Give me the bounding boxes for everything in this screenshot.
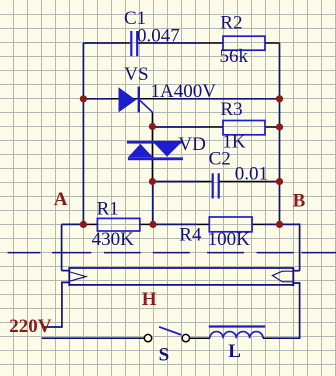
junction at A — [80, 221, 87, 228]
svg-text:R4: R4 — [179, 224, 202, 245]
junction right rail VS row — [276, 95, 283, 102]
svg-text:C2: C2 — [209, 149, 231, 170]
switch S contact right — [182, 334, 189, 341]
svg-text:0.047: 0.047 — [137, 26, 180, 47]
svg-text:56k: 56k — [220, 46, 249, 67]
pin switch to L — [190, 337, 210, 339]
junction at B — [276, 221, 283, 228]
wire stub left top — [62, 270, 70, 272]
wire top row C1/R2 — [83, 42, 121, 44]
wire tube right bottom stub — [272, 283, 300, 338]
svg-text:B: B — [293, 191, 306, 212]
svg-text:VS: VS — [124, 64, 148, 85]
svg-text:R1: R1 — [97, 199, 119, 220]
junction right rail C2 row — [276, 178, 283, 185]
pin R2 left — [201, 42, 223, 44]
svg-text:R3: R3 — [220, 99, 242, 120]
pin switch left — [138, 337, 144, 339]
svg-text:R2: R2 — [220, 13, 242, 34]
svg-text:VD: VD — [178, 134, 205, 155]
junction diac bottom — [149, 178, 156, 185]
resistor R3 — [223, 121, 265, 135]
svg-text:430K: 430K — [92, 229, 135, 250]
heater H tube — [69, 267, 295, 286]
pin diac vertical — [151, 112, 153, 181]
wire left vertical rail — [82, 43, 84, 224]
wire VS row left — [83, 98, 110, 100]
wire A to left drop — [61, 224, 63, 270]
wire C1 right to R2 — [151, 42, 201, 44]
wire B to right drop — [280, 224, 300, 270]
pin R1 right — [140, 223, 153, 225]
pin C2 left — [201, 181, 212, 183]
VS gate diagonal — [140, 101, 152, 113]
svg-text:S: S — [159, 345, 170, 366]
junction dots — [80, 95, 283, 228]
svg-text:100K: 100K — [208, 229, 251, 250]
dashed enclosure line — [8, 252, 336, 254]
svg-text:L: L — [228, 341, 241, 362]
pin C1 right — [137, 42, 151, 44]
resistor R1 — [97, 218, 139, 231]
wire tube left bottom stub — [45, 282, 70, 327]
pin VS cathode — [140, 98, 172, 100]
pin C1 left — [121, 42, 130, 44]
heater right electrode — [272, 271, 293, 282]
wire C2 right — [269, 181, 280, 183]
svg-text:H: H — [142, 289, 157, 310]
wire R1 to R4 — [153, 223, 197, 225]
junction right rail R3 row — [276, 123, 283, 130]
heater left electrode — [70, 272, 86, 281]
pin R2 right — [265, 42, 280, 44]
junction R1 right — [149, 221, 156, 228]
inductor L — [209, 327, 265, 339]
junction diac top — [149, 123, 156, 130]
resistor R2 — [223, 36, 265, 50]
wire stub right top — [293, 270, 299, 272]
switch S contact left — [144, 334, 151, 341]
wire R3 row left — [152, 126, 205, 128]
switch blade — [159, 327, 181, 335]
diac VD — [127, 141, 183, 160]
thyristor VS — [119, 87, 141, 113]
resistor R4 — [209, 217, 252, 232]
wire A row — [62, 223, 86, 225]
wire C2 row left — [152, 181, 200, 183]
wire VS row right — [172, 98, 280, 100]
pin R4 left — [197, 223, 210, 225]
wire R4 to B — [265, 223, 280, 225]
wire diac to A-B row — [152, 182, 154, 225]
wire 220V bottom lead — [42, 337, 138, 339]
svg-text:0.01: 0.01 — [235, 163, 268, 184]
pin R3 right — [265, 126, 280, 128]
wire right vertical rail — [279, 43, 281, 224]
pin L right — [263, 337, 272, 339]
svg-text:A: A — [54, 189, 68, 210]
capacitor C2 — [212, 173, 220, 198]
junction at VS anode — [80, 95, 87, 102]
svg-text:220V: 220V — [9, 316, 52, 337]
pin C2 right — [220, 181, 269, 183]
pin VS anode — [111, 98, 141, 100]
pin R4 right — [252, 223, 265, 225]
pin R1 left — [86, 223, 97, 225]
capacitor C1 — [130, 31, 138, 56]
pin R3 left — [205, 126, 223, 128]
svg-text:1A400V: 1A400V — [151, 81, 217, 102]
